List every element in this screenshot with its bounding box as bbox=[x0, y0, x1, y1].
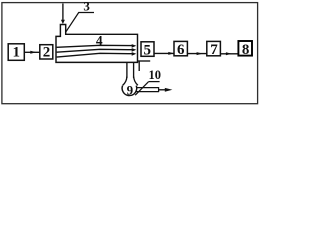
svg-text:2: 2 bbox=[43, 44, 51, 60]
svg-text:6: 6 bbox=[177, 42, 185, 58]
svg-text:8: 8 bbox=[242, 42, 250, 58]
svg-text:1: 1 bbox=[12, 45, 20, 61]
svg-text:10: 10 bbox=[149, 68, 162, 82]
svg-text:7: 7 bbox=[210, 42, 218, 58]
svg-text:5: 5 bbox=[143, 43, 151, 59]
svg-text:9: 9 bbox=[127, 83, 134, 98]
svg-text:3: 3 bbox=[83, 0, 90, 14]
